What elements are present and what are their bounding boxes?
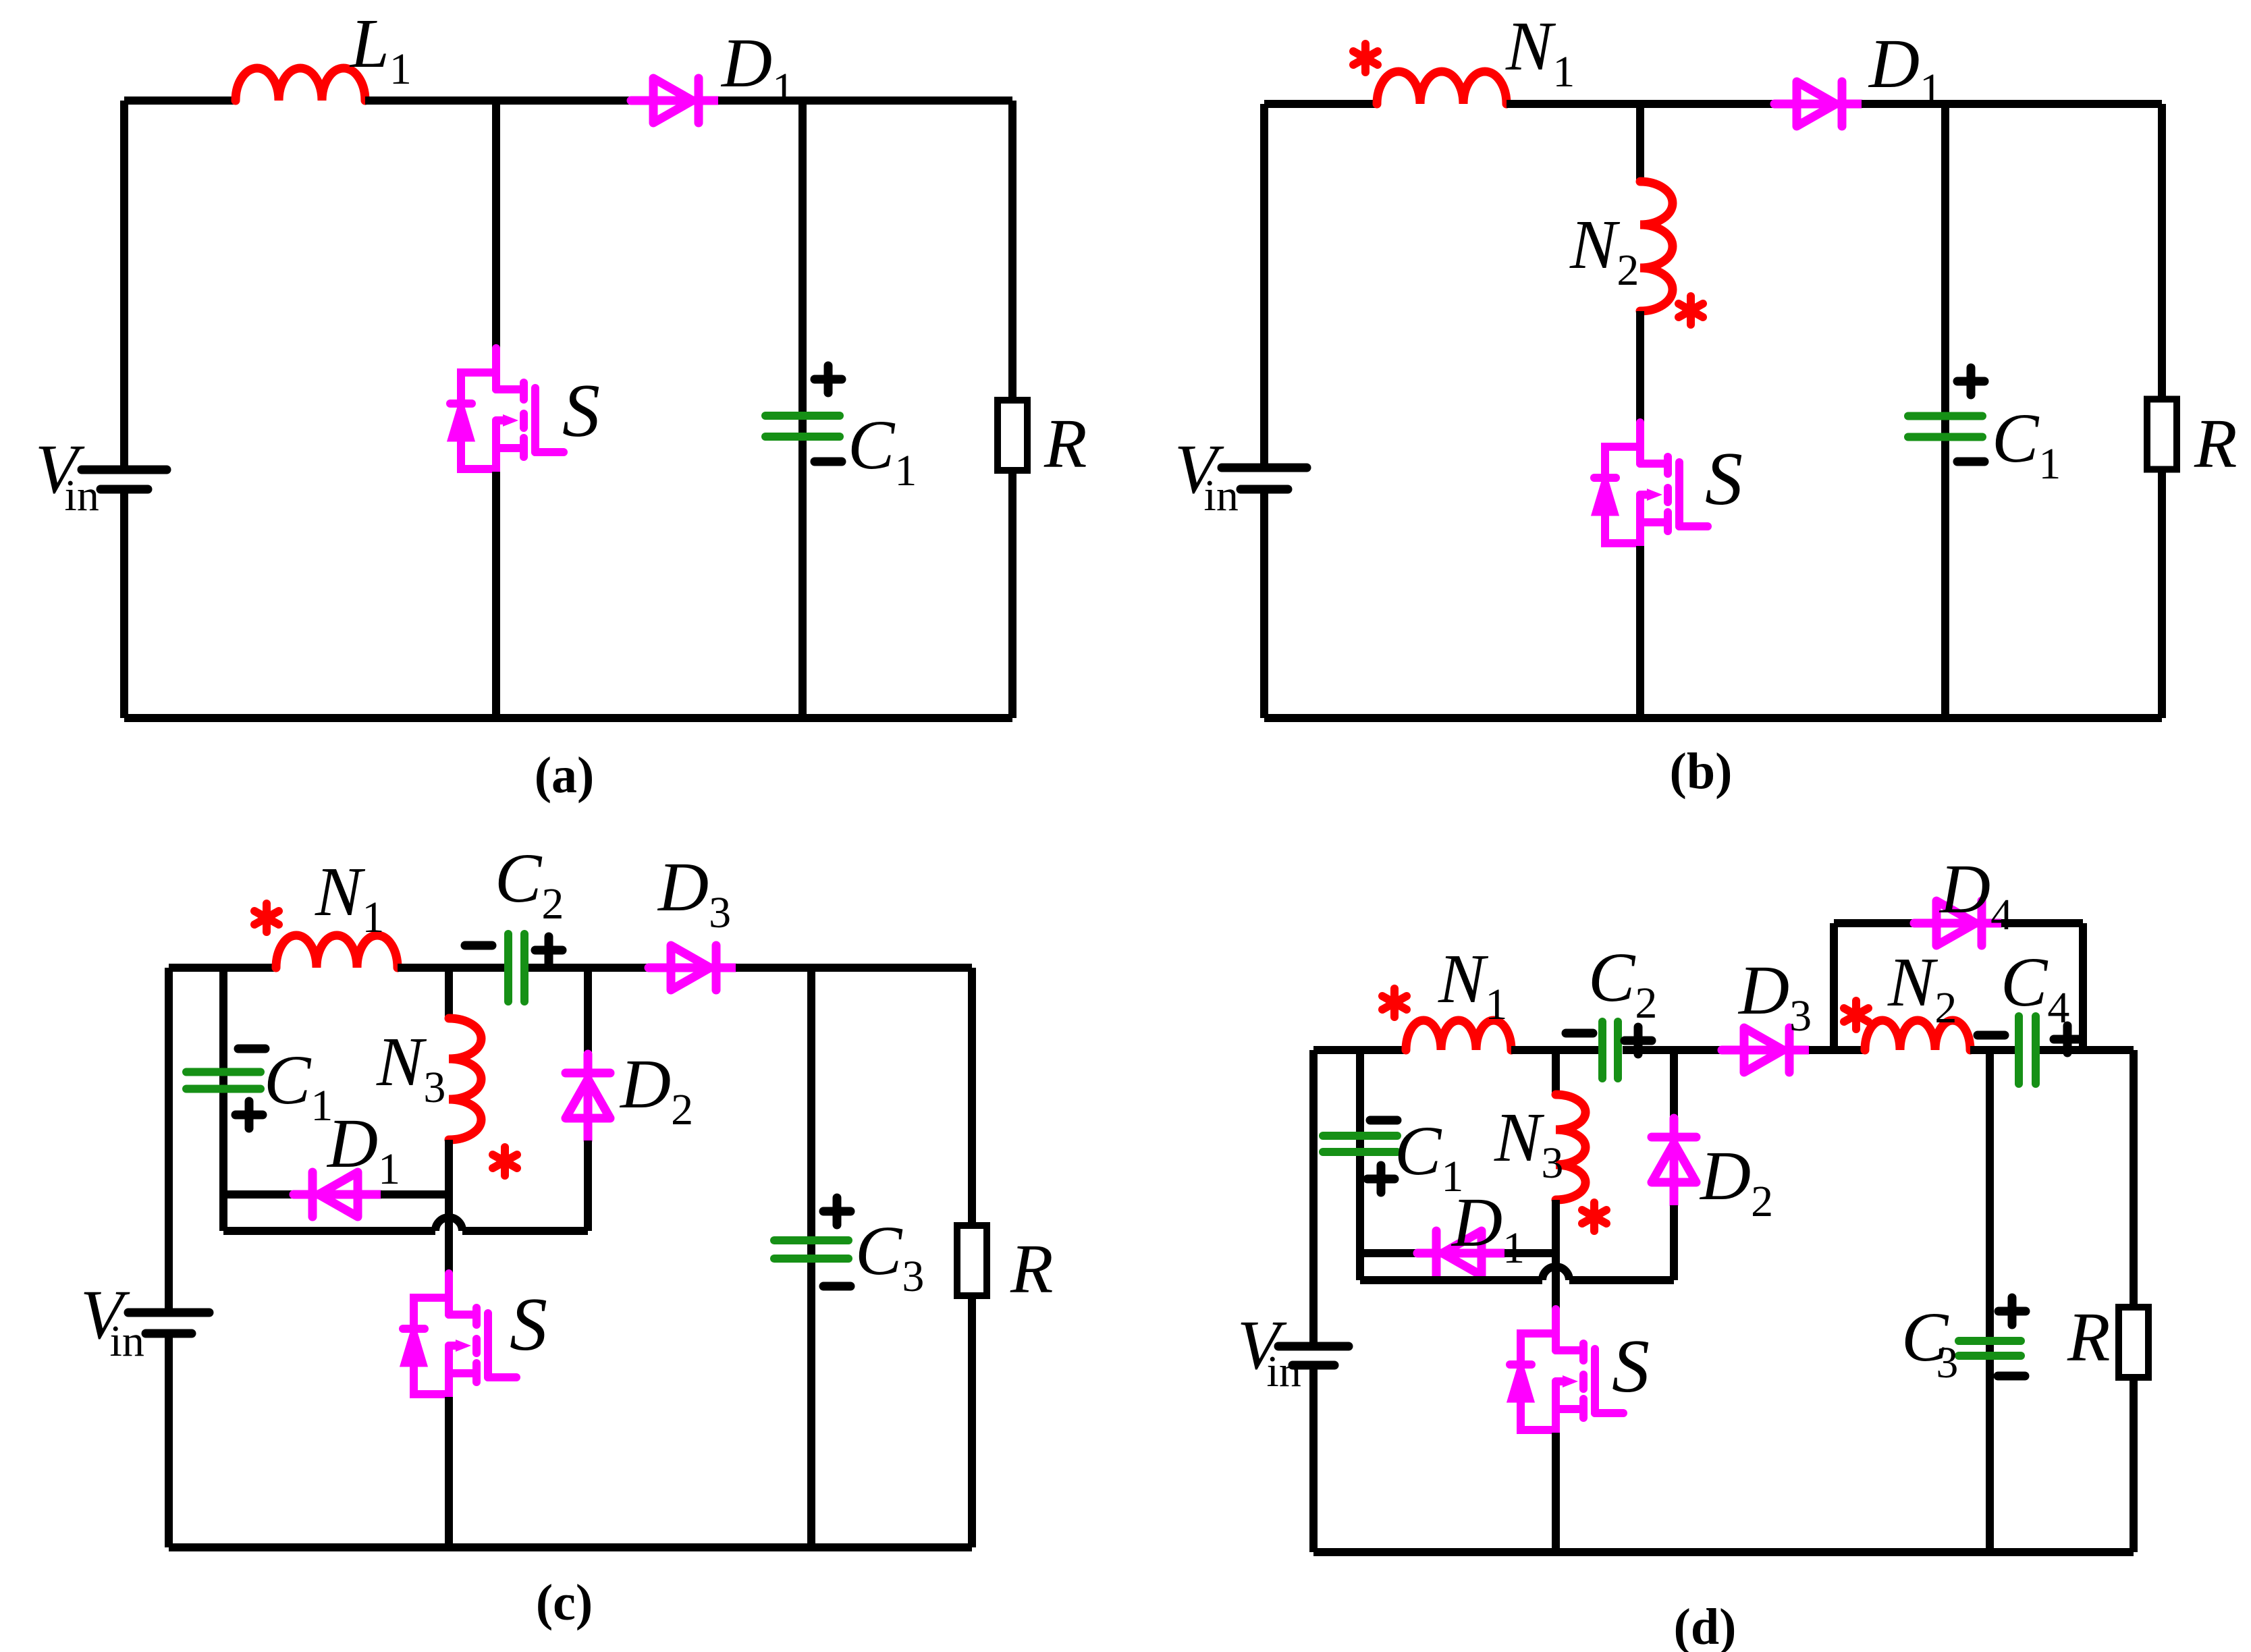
wire a switch drain leg [492,101,500,351]
svg-text:N1: N1 [1505,7,1575,97]
svg-text:D3: D3 [1737,952,1812,1041]
wire b top-left segment [1264,100,1377,108]
minus sign C4 (d) [1978,1031,2005,1040]
svg-text:Vin: Vin [35,431,99,520]
transistor S (b) [1594,422,1708,549]
wire c C3 branch [807,968,815,1547]
dot marker N3 (d) [1582,1203,1606,1231]
svg-text:C1: C1 [848,406,917,495]
wire b left upper [1260,104,1268,464]
wire d D1 right lead [1504,1249,1556,1257]
wire d left upper [1309,1050,1318,1342]
wire d D4 loop left vertical [1830,923,1838,1050]
dot marker N1 [1353,44,1378,72]
wire d D4 loop right vertical [2079,923,2087,1050]
diode D1 [631,78,717,123]
wire d bottom [1313,1548,2134,1556]
wire d D1 left lead [1360,1249,1417,1257]
capacitor C1 (d) [1323,1136,1397,1152]
plus sign C3 (c) [823,1198,850,1225]
plus sign C2 (d) [1625,1027,1652,1054]
wire c D2 lower leg [584,1140,592,1231]
wire c D1 left lead [223,1190,293,1199]
plus sign C1 (d) [1367,1165,1394,1192]
svg-text:C2: C2 [1588,939,1657,1028]
wire a R branch upper [1008,101,1016,400]
wire c inner-left vertical [219,968,227,1231]
minus sign C2 (d) [1566,1029,1593,1038]
dot marker N1 (c) [254,904,279,932]
wire d inner bottom left [1360,1276,1542,1284]
wire c inner bottom right [462,1227,588,1235]
resistor R (d) [2119,1307,2148,1377]
wire c N3-D1 junction to switch [445,1140,453,1276]
svg-text:C3: C3 [855,1212,924,1301]
dot marker N3 (c) [493,1147,517,1176]
voltage source Vin (d) [1278,1346,1349,1365]
capacitor C1 (c) [186,1072,261,1089]
minus sign C3 (d) [1998,1372,2025,1381]
wire c D2 upper leg [584,968,592,1054]
resistor R (b) [2147,400,2177,470]
svg-text:R: R [1010,1230,1054,1308]
svg-text:N1: N1 [1438,940,1507,1029]
capacitor C3 (d) [1959,1341,2021,1356]
minus sign C1 (b) [1957,458,1984,466]
wire b C1 branch [1941,104,1949,718]
svg-text:R: R [2194,405,2238,483]
wire c bottom [169,1543,972,1551]
wire d D2 upper leg [1670,1050,1678,1118]
transistor S (switch) [450,348,564,474]
wire d left lower [1309,1369,1318,1552]
capacitor C3 (c) [774,1240,848,1259]
wire d top seg6 [2040,1046,2134,1054]
svg-text:D2: D2 [619,1045,693,1134]
inductor N2 (d) [1865,1020,1970,1050]
svg-text:C4: C4 [2001,943,2069,1032]
inductor N1 (d) [1406,1020,1511,1050]
diode D3 (d) [1722,1028,1808,1072]
wire d C3 branch [1986,1050,1994,1552]
svg-text:Vin: Vin [80,1276,144,1366]
wire c left upper [165,968,173,1309]
svg-text:N2: N2 [1887,943,1957,1032]
svg-text:(a): (a) [535,747,595,804]
svg-text:D1: D1 [326,1105,400,1194]
svg-text:N3: N3 [1494,1099,1563,1188]
transistor S (d) [1510,1309,1623,1435]
minus sign C1 (d) [1370,1116,1397,1125]
wire b top right segment [1862,100,2162,108]
wire hop (d) [1542,1267,1569,1280]
svg-text:D1: D1 [1450,1184,1525,1273]
svg-text:S: S [1705,437,1743,521]
svg-text:C1: C1 [1992,400,2061,489]
diode D3 (c) [649,945,735,990]
plus sign C3 (d) [1999,1298,2026,1325]
diode D1 (b) [1774,82,1861,126]
svg-text:(d): (d) [1674,1599,1737,1652]
wire d D4 rail left [1834,919,1914,927]
transistor S (c) [403,1273,516,1400]
wire c left lower [165,1338,173,1547]
wire d top-left segment [1313,1046,1406,1054]
wire c R branch upper [968,968,976,1225]
wire d inner bottom right [1569,1276,1674,1284]
wire d N3 upper leg [1552,1050,1560,1095]
wire a switch source leg [492,472,500,718]
wire c top seg2 [398,964,504,972]
diode D1 (d) [1417,1231,1504,1275]
wire a bottom [124,714,1012,722]
plus sign C4 (d) [2054,1026,2081,1053]
resistor R (c) [957,1226,987,1296]
wire c inner bottom left [223,1227,435,1235]
plus sign C1 [815,366,842,393]
diode D4 [1914,901,2001,945]
voltage source Vin (c) [128,1313,209,1333]
capacitor C4 (d) [2019,1016,2036,1084]
wire d top seg3 [1623,1046,1721,1054]
wire d top seg4 [1809,1046,1865,1054]
minus sign C1 [815,458,842,466]
wire c top seg3 [528,964,648,972]
wire d R branch upper [2130,1050,2138,1305]
wire b N2-switch leg [1636,311,1644,425]
wire b switch source leg [1636,546,1644,718]
svg-text:C2: C2 [495,839,564,929]
wire a top-left segment [124,97,236,105]
svg-text:C3: C3 [1901,1298,1958,1387]
diode D2 (c) [566,1054,610,1140]
dot marker N1 (d) [1382,989,1407,1017]
svg-text:S: S [1612,1325,1650,1408]
wire a left lower (Vin-) [120,493,128,718]
minus sign C3 (c) [823,1282,850,1291]
wire d D4 rail right [2001,919,2083,927]
svg-text:(c): (c) [536,1574,593,1631]
plus sign C2 (c) [535,937,562,964]
capacitor C1 [765,416,840,437]
minus sign C1 (c) [238,1045,265,1053]
svg-text:R: R [1043,405,1087,483]
dot marker N2 (d) [1844,1001,1868,1029]
wire b left lower [1260,493,1268,718]
wire b bottom [1264,714,2162,722]
wire c top seg4 [736,964,972,972]
wire a top right segment [718,97,1012,105]
inductor N1 (winding) [1377,72,1507,104]
inductor N3 (d) [1556,1095,1585,1200]
plus sign C1 (b) [1957,368,1984,395]
svg-text:L1: L1 [349,5,412,94]
wire d N3-D1 junction to switch [1552,1200,1560,1312]
voltage source Vin (b) [1222,468,1307,489]
wire c switch source leg [445,1397,453,1547]
wire b R branch upper [2158,104,2166,399]
wire c R branch lower [968,1296,976,1547]
svg-text:Vin: Vin [1174,431,1239,520]
diode D2 (d) [1652,1118,1696,1205]
capacitor C1 (b) [1908,416,1982,437]
svg-text:D3: D3 [657,848,731,937]
resistor R [998,400,1027,470]
wire d switch source leg [1552,1433,1560,1552]
minus sign C2 (c) [465,941,492,950]
wire d R branch lower [2130,1379,2138,1552]
wire d inner-left vertical [1356,1050,1364,1280]
plus sign C1 (c) [236,1101,263,1128]
svg-text:(b): (b) [1670,743,1733,800]
wire b top mid segment [1507,100,1774,108]
svg-text:S: S [562,369,600,453]
diode D1 (c) [294,1172,380,1217]
wire d top seg5 [1970,1046,2015,1054]
svg-text:Vin: Vin [1237,1306,1301,1396]
wire c top-left segment [169,964,276,972]
inductor N1 (c) [276,935,398,968]
dot marker N2 [1679,296,1703,325]
svg-text:N1: N1 [315,853,384,942]
wire c N3 upper leg [445,968,453,1018]
capacitor C2 (d) [1602,1022,1618,1078]
wire b N2 upper leg [1636,104,1644,182]
capacitor C2 (c) [508,934,524,1001]
wire d top seg2 [1511,1046,1598,1054]
voltage source Vin [82,470,167,489]
inductor N3 (c) [449,1018,481,1140]
svg-text:R: R [2067,1298,2111,1376]
wire a top mid segment [365,97,630,105]
wire a left upper (Vin+) [120,101,128,466]
svg-text:S: S [510,1283,547,1367]
wire d D2 lower leg [1670,1205,1678,1280]
wire hop (c) [435,1217,462,1231]
svg-text:N2: N2 [1569,206,1639,295]
inductor N2 (winding) [1640,182,1673,311]
wire b R branch lower [2158,470,2166,718]
wire c D1 right lead [381,1190,449,1199]
inductor L1 [236,68,365,101]
wire a C1 branch [798,101,807,718]
svg-text:N3: N3 [376,1023,445,1112]
svg-text:D2: D2 [1699,1137,1773,1226]
wire a R branch lower [1008,471,1016,718]
svg-text:C1: C1 [264,1041,333,1130]
